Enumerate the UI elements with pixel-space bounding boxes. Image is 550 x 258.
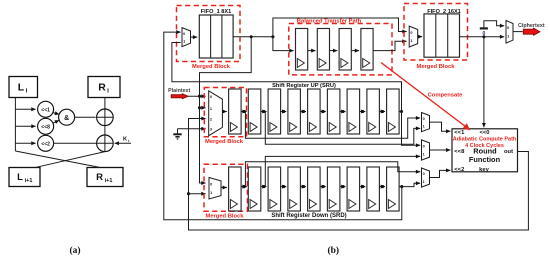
wire cross xor2 to Li+1 bbox=[36, 152, 105, 168]
label Merged Block 1 bbox=[192, 64, 231, 70]
svg-text:<<8: <<8 bbox=[41, 124, 50, 130]
label Merged Block 2 bbox=[416, 64, 455, 70]
node FIFO1out A bbox=[250, 35, 253, 38]
wire branch <<2 bbox=[15, 142, 35, 144]
shift circle <<1 bbox=[38, 101, 54, 117]
svg-text:i: i bbox=[107, 88, 109, 95]
label Compensate bbox=[428, 93, 464, 99]
wire <<1 to & bbox=[53, 113, 60, 115]
wire muxA out to RF <<1 bbox=[430, 122, 451, 131]
label RF Function bbox=[469, 155, 501, 164]
caption (b) bbox=[327, 245, 339, 256]
wire M1 out bbox=[191, 36, 198, 38]
SRU cell 9 bbox=[387, 89, 400, 134]
wire SRU c7-c8 bbox=[360, 110, 366, 113]
wire BTP exit to M2 in1 bbox=[373, 41, 407, 50]
svg-text:out: out bbox=[504, 149, 513, 155]
label Merged Block 4 bbox=[205, 213, 244, 219]
wire SRUmux out bbox=[222, 111, 226, 113]
shift circle <<8 bbox=[38, 118, 54, 134]
mux A bbox=[422, 113, 430, 132]
label RF adiabatic bbox=[453, 137, 517, 143]
bus4 SRD tap1 to muxC in0 bbox=[245, 162, 420, 187]
wire <<2 to xor2 bbox=[54, 142, 97, 144]
wire SRU c5-c6 bbox=[320, 110, 326, 113]
wire SRD c9 out to muxC in1 bbox=[399, 183, 420, 186]
wire M3 out bbox=[513, 31, 523, 33]
svg-text:<<1: <<1 bbox=[41, 107, 50, 113]
wire BTP c2-c3 bbox=[330, 50, 338, 52]
shift circle <<2 bbox=[38, 135, 54, 151]
wire BTP c1-c2 bbox=[308, 50, 316, 52]
wire SRD c6-c7 bbox=[340, 185, 346, 188]
svg-text:1: 1 bbox=[210, 107, 212, 111]
xor X2 bbox=[97, 135, 114, 152]
svg-text:1: 1 bbox=[507, 35, 509, 39]
svg-text:Shift Register UP (SRU): Shift Register UP (SRU) bbox=[272, 83, 336, 89]
balanced transfer path box bbox=[289, 24, 392, 75]
AND gate & bbox=[59, 109, 75, 125]
label Plaintext bbox=[168, 88, 190, 94]
wire cross Li to Ri+1 bbox=[15, 151, 99, 167]
label RF key bbox=[479, 167, 489, 173]
svg-text:Merged Block: Merged Block bbox=[205, 213, 244, 219]
constant 0 source bbox=[480, 21, 504, 37]
bus3 SRD tap2 to muxB in1 bbox=[265, 156, 420, 186]
mux M2 bbox=[409, 26, 418, 47]
BTP buffer cell 2 bbox=[317, 29, 329, 71]
label Shift Register UP (SRU) bbox=[272, 83, 336, 89]
FIFO_2 register bbox=[424, 14, 460, 57]
wire SRU c4-c5 bbox=[300, 110, 306, 113]
wire SRD c5-c6 bbox=[320, 185, 326, 188]
wire & to xor1 bbox=[75, 116, 96, 118]
svg-text:3: 3 bbox=[210, 128, 212, 132]
wire muxC out to RF <<2 bbox=[430, 170, 451, 177]
SRU cell 4 bbox=[288, 89, 301, 134]
svg-text:&: & bbox=[64, 115, 69, 122]
wire Ki input bbox=[115, 142, 131, 144]
svg-text:L: L bbox=[18, 82, 25, 94]
label Shift Register Down (SRD) bbox=[271, 213, 346, 219]
bus2 SRU tap2 to muxA in1 bbox=[265, 112, 420, 145]
box Li+1 bbox=[9, 168, 40, 187]
wire branch <<1 bbox=[15, 108, 35, 110]
svg-text:0: 0 bbox=[210, 95, 212, 99]
svg-text:(a): (a) bbox=[69, 245, 80, 256]
svg-text:1: 1 bbox=[423, 152, 425, 156]
svg-text:0: 0 bbox=[507, 26, 509, 30]
wire muxB out to RF <<8 bbox=[430, 149, 451, 151]
svg-text:1: 1 bbox=[183, 39, 185, 43]
merged block box SRD bbox=[204, 164, 247, 211]
svg-text:0: 0 bbox=[410, 31, 412, 35]
svg-text:1: 1 bbox=[410, 39, 412, 43]
svg-text:0: 0 bbox=[183, 32, 185, 36]
svg-text:1: 1 bbox=[423, 124, 425, 128]
label FIFO_2 16X1 bbox=[427, 9, 461, 15]
wire Li stem bbox=[14, 98, 16, 151]
wire RF out feedback bbox=[189, 119, 529, 231]
wire SRD c7-c8 bbox=[360, 185, 366, 188]
label RF <<8 bbox=[454, 149, 465, 155]
wire to RoundFunction <<0 bbox=[483, 37, 485, 128]
SRD cell 1 bbox=[229, 167, 242, 211]
SRD cell 4 bbox=[288, 167, 301, 211]
wire SRU c8-c9 bbox=[379, 110, 385, 113]
wire ground to SRUmux in3 bbox=[178, 128, 206, 130]
svg-text:Shift Register Down (SRD): Shift Register Down (SRD) bbox=[271, 213, 346, 219]
SRD cell 8 bbox=[367, 167, 380, 211]
wire feedback to SRDmux in1 bbox=[189, 193, 206, 195]
merged block box FIFO_1 bbox=[177, 6, 241, 62]
SRU cell 8 bbox=[367, 89, 380, 134]
svg-text:Compensate: Compensate bbox=[428, 93, 464, 99]
wire xor1 to xor2 bbox=[104, 126, 106, 135]
wire SRU c9 out bbox=[399, 111, 401, 113]
label Balanced Transfer Path bbox=[297, 18, 362, 24]
FIFO_1 register bbox=[199, 15, 233, 58]
merged block box SRU bbox=[204, 88, 246, 137]
svg-text:Merged Block: Merged Block bbox=[192, 64, 231, 70]
wire SRD c4-c5 bbox=[300, 185, 306, 188]
label Ki bbox=[123, 137, 129, 144]
svg-text:Merged Block: Merged Block bbox=[205, 139, 244, 145]
mux M3 output select bbox=[506, 21, 513, 44]
plaintext arrow bbox=[171, 94, 188, 99]
node SRUout tap bbox=[400, 110, 403, 113]
box Ri+1 bbox=[87, 168, 123, 187]
label RF <<0 bbox=[480, 130, 490, 136]
label RF <<2 bbox=[454, 167, 464, 173]
wire branch <<8 bbox=[15, 125, 35, 127]
BTP buffer cell 1 bbox=[296, 29, 308, 71]
SRU cell 6 bbox=[327, 89, 340, 134]
node SRU col in0 bbox=[198, 95, 201, 98]
label RF <<1 bbox=[454, 130, 465, 136]
wire SRDmux out bbox=[221, 187, 227, 189]
svg-text:Merged Block: Merged Block bbox=[416, 64, 455, 70]
wire <<8 to & bbox=[53, 120, 60, 123]
node ciphertext junction bbox=[482, 35, 485, 38]
svg-text:1: 1 bbox=[423, 180, 425, 184]
node FIFO1out B bbox=[271, 35, 274, 38]
svg-text:i+1: i+1 bbox=[105, 178, 113, 184]
svg-text:K: K bbox=[123, 137, 127, 143]
svg-text:(b): (b) bbox=[327, 245, 339, 256]
SRD cell 6 bbox=[327, 167, 340, 211]
svg-text:FIFO_1 8X1: FIFO_1 8X1 bbox=[201, 9, 231, 15]
wire Ri stem bbox=[104, 98, 106, 109]
wire SRU c1-c2 bbox=[241, 110, 247, 113]
svg-text:key: key bbox=[479, 167, 489, 173]
node SRDout tap bbox=[400, 185, 403, 188]
SRU cell 5 bbox=[308, 89, 321, 134]
svg-text:0: 0 bbox=[423, 144, 425, 148]
svg-text:Ciphertext: Ciphertext bbox=[518, 23, 545, 29]
node SRU col in1 bbox=[198, 106, 201, 109]
label Ciphertext bbox=[518, 23, 545, 29]
xor X1 bbox=[97, 109, 114, 126]
mux M1 bbox=[182, 28, 191, 47]
svg-text:0: 0 bbox=[423, 172, 425, 176]
wire M2 out bbox=[418, 36, 423, 38]
wire plaintext to SRUmux in0 bbox=[188, 95, 205, 97]
wire BTP entry bbox=[273, 37, 294, 51]
label FIFO_1 8X1 bbox=[201, 9, 231, 15]
mux B bbox=[422, 140, 430, 160]
SRD cell 5 bbox=[308, 167, 321, 211]
label RF out bbox=[504, 149, 513, 155]
box Li bbox=[9, 77, 38, 98]
svg-text:<<1: <<1 bbox=[454, 130, 465, 136]
svg-text:0: 0 bbox=[423, 117, 425, 121]
SRU cell 7 bbox=[347, 89, 360, 134]
svg-text:Function: Function bbox=[469, 155, 501, 164]
SRD cell 9 bbox=[387, 167, 400, 211]
wire SRDout to FIFO1 in0 bbox=[164, 32, 402, 220]
compensate arrow bbox=[381, 63, 470, 130]
svg-text:i+1: i+1 bbox=[25, 178, 33, 184]
wire SRU c6-c7 bbox=[340, 110, 346, 113]
ciphertext arrow bbox=[523, 28, 540, 35]
wire FIFO1out down to SRU col bbox=[200, 37, 252, 183]
wire SRUout to FIFO1 in1 and muxB bbox=[172, 43, 420, 146]
svg-text:i: i bbox=[128, 138, 129, 143]
SRU cell 2 bbox=[248, 89, 260, 134]
label Merged Block 3 bbox=[205, 139, 244, 145]
bus1 SRU tap1 to muxA in0 bbox=[245, 112, 420, 139]
mux C bbox=[422, 168, 430, 187]
wire BTP c3-c4 bbox=[351, 50, 359, 52]
SRU cell 3 bbox=[268, 89, 281, 134]
wire SRD c1-c2 bbox=[241, 185, 247, 188]
mux SRU 4-input bbox=[209, 91, 223, 136]
svg-text:Plaintext: Plaintext bbox=[168, 88, 190, 94]
wire col to SRUmux in1 bbox=[200, 107, 206, 109]
wire bypass to M2 in0 bbox=[273, 18, 407, 37]
caption (a) bbox=[69, 245, 80, 256]
svg-text:<<8: <<8 bbox=[454, 149, 465, 155]
SRD cell 2 bbox=[248, 167, 260, 211]
svg-text:Adiabatic Compute Path: Adiabatic Compute Path bbox=[453, 137, 517, 143]
round function box U1 bbox=[452, 129, 518, 172]
SRU cell 1 bbox=[229, 89, 242, 134]
label RF 4clock bbox=[465, 143, 504, 149]
svg-text:0: 0 bbox=[483, 31, 486, 37]
svg-text:2: 2 bbox=[210, 118, 212, 122]
box Ri bbox=[88, 77, 120, 98]
merged block box FIFO_2 bbox=[404, 4, 468, 61]
wire FIFO_1 output bbox=[233, 36, 273, 38]
label RF Round bbox=[473, 147, 497, 156]
svg-text:R: R bbox=[98, 82, 106, 94]
wire SRU c3-c4 bbox=[281, 110, 287, 113]
svg-text:R: R bbox=[96, 172, 103, 183]
node feedback SRDmux in1 bbox=[187, 192, 190, 195]
svg-text:Balanced Transfer Path: Balanced Transfer Path bbox=[297, 18, 362, 24]
wire FIFO_2 output bbox=[460, 36, 505, 38]
svg-text:i: i bbox=[26, 88, 28, 95]
svg-text:<<2: <<2 bbox=[41, 141, 50, 147]
svg-text:0: 0 bbox=[210, 182, 212, 186]
wire SRD c2-c3 bbox=[261, 185, 267, 188]
wire SRU c2-c3 bbox=[261, 110, 267, 113]
SRD cell 3 bbox=[268, 167, 281, 211]
wire SRD c3-c4 bbox=[281, 185, 287, 188]
BTP buffer cell 4 bbox=[361, 29, 373, 71]
svg-text:<<0: <<0 bbox=[480, 130, 490, 136]
mux SRD bbox=[209, 178, 221, 200]
ground symbol bbox=[173, 129, 181, 139]
BTP buffer cell 3 bbox=[339, 29, 351, 71]
SRD cell 7 bbox=[347, 167, 360, 211]
svg-text:1: 1 bbox=[210, 191, 212, 195]
svg-text:<<2: <<2 bbox=[454, 167, 464, 173]
svg-text:L: L bbox=[17, 172, 23, 183]
wire SRD c8-c9 bbox=[379, 185, 385, 188]
